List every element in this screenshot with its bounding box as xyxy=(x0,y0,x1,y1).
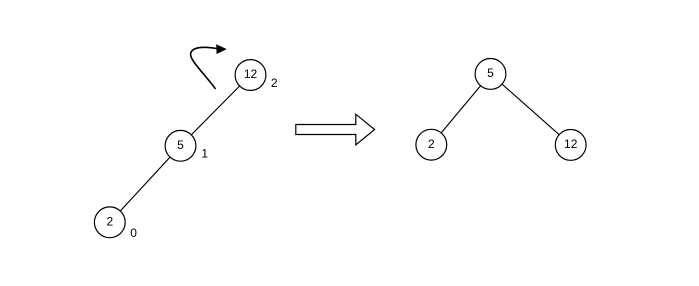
node 12 (left tree, height 2) xyxy=(235,60,266,91)
svg-text:5: 5 xyxy=(487,66,494,80)
big hollow transform arrow (pointing right) xyxy=(296,114,375,145)
svg-text:2: 2 xyxy=(106,214,113,228)
wire: edge node5-node2 (right balanced tree) xyxy=(431,74,490,145)
node 12 (right tree right child) xyxy=(555,130,586,161)
curved rotation arrow above node 12 xyxy=(191,45,226,89)
svg-text:0: 0 xyxy=(130,226,137,240)
node 2 (left tree, height 0) xyxy=(94,207,125,238)
node 5 (left tree, height 1) xyxy=(165,130,196,161)
node 2 (right tree left child) xyxy=(416,129,447,160)
svg-text:5: 5 xyxy=(177,138,184,152)
svg-text:1: 1 xyxy=(201,147,208,161)
svg-text:12: 12 xyxy=(564,137,578,151)
node 5 (right tree root) xyxy=(475,59,506,90)
svg-text:2: 2 xyxy=(428,137,435,151)
wire: edge node5-node12 (left skewed tree) xyxy=(181,75,251,146)
wire: edge node5-node12 (right balanced tree) xyxy=(491,74,571,145)
wire: edge node2-node5 (left skewed tree) xyxy=(110,146,181,223)
svg-text:12: 12 xyxy=(244,67,258,81)
svg-text:2: 2 xyxy=(271,76,278,90)
